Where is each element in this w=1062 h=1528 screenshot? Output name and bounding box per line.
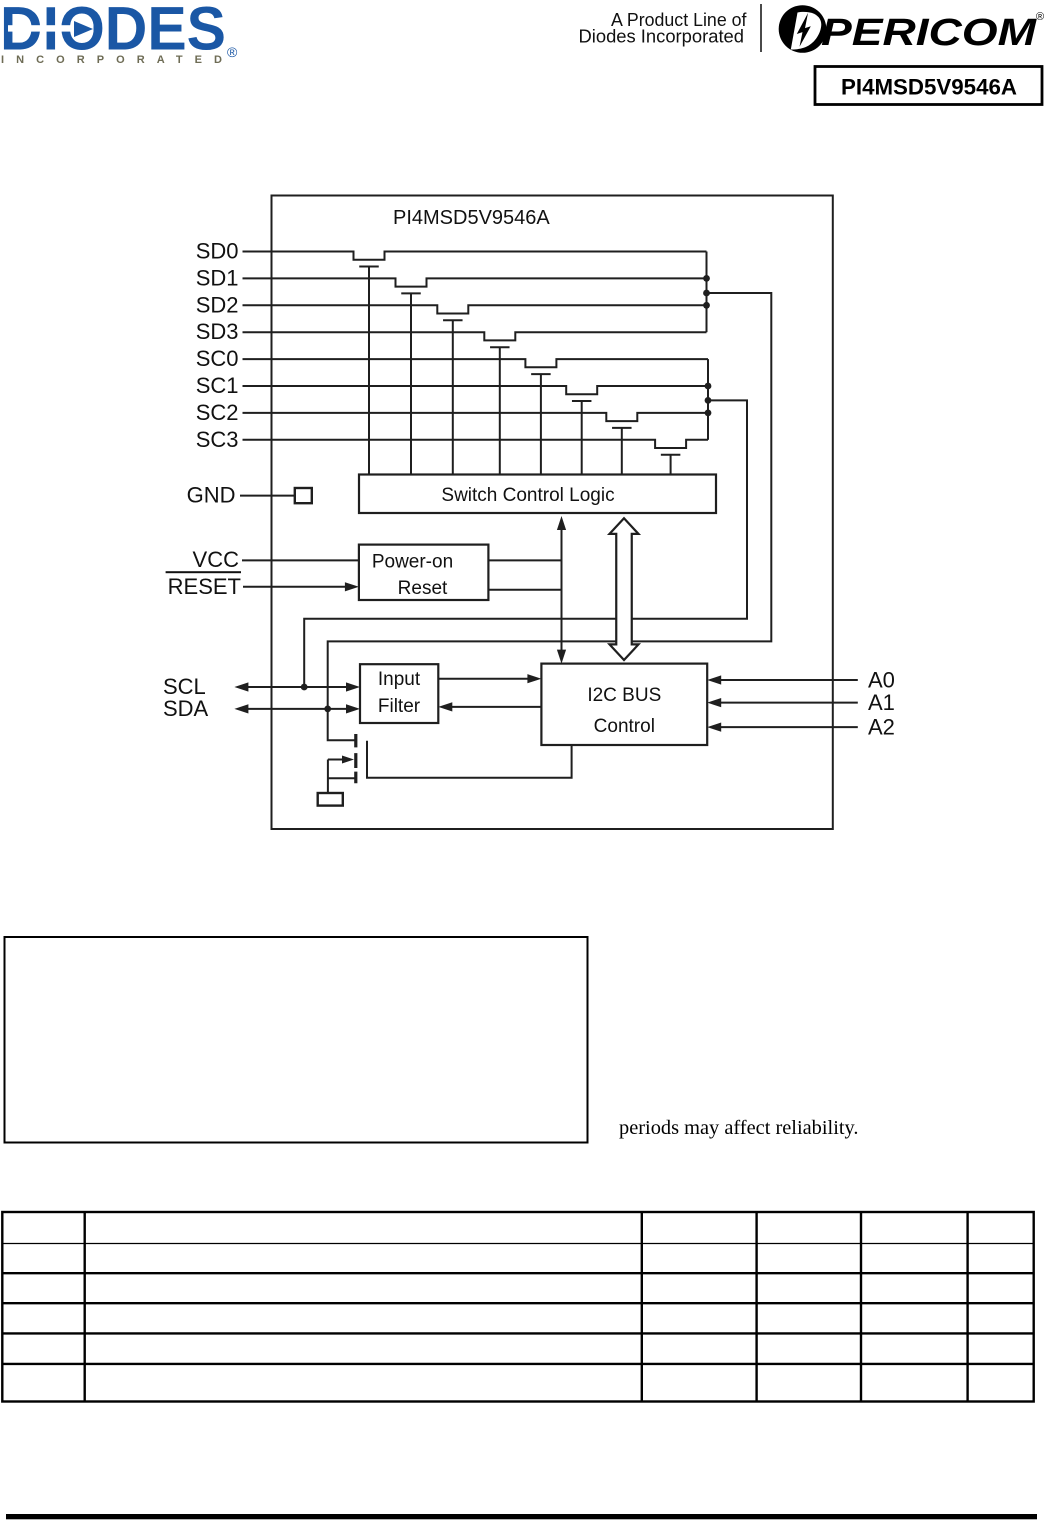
pulldown transistor Q1 body arrow: [328, 756, 354, 764]
block diagram outer box: [272, 196, 833, 830]
Pericom logo: [779, 5, 1044, 54]
wire SD2 with pass-transistor switch channel: [243, 305, 707, 313]
node SD1 junction: [703, 275, 710, 282]
svg-text:Diodes Incorporated: Diodes Incorporated: [579, 27, 745, 47]
node SC tap junction: [705, 397, 712, 404]
svg-text:SD1: SD1: [196, 265, 239, 290]
part number box: [815, 67, 1042, 105]
wire GND: [240, 495, 295, 497]
svg-text:SC3: SC3: [196, 427, 239, 452]
transistor gate SC1: [572, 401, 592, 475]
wire SC0 with pass-transistor switch channel: [243, 359, 709, 367]
svg-text:VCC: VCC: [193, 547, 240, 572]
transistor gate SD2: [443, 320, 463, 474]
transistor gate SD0: [359, 267, 379, 475]
transistor gate SC2: [612, 428, 632, 475]
svg-text:SD3: SD3: [196, 319, 239, 344]
SC output bus wire: [707, 359, 709, 440]
svg-text:SD0: SD0: [196, 239, 239, 264]
wire A1: [707, 698, 858, 707]
wire VCC: [242, 559, 359, 561]
wire I2C BUS Control to pulldown gate: [367, 741, 572, 778]
svg-text:Filter: Filter: [378, 696, 421, 717]
pulldown transistor Q1 source wire: [328, 777, 355, 779]
svg-text:®: ®: [227, 44, 238, 60]
svg-text:SC0: SC0: [196, 346, 239, 371]
empty note box: [5, 937, 588, 1143]
transistor gate SD3: [490, 347, 510, 474]
Power-on Reset block: [359, 545, 489, 600]
svg-text:periods may affect reliability: periods may affect reliability.: [619, 1117, 859, 1139]
Input Filter block: [360, 664, 438, 723]
wire SC2 with pass-transistor switch channel: [243, 413, 709, 421]
hollow double arrow between Switch Control Logic and I2C BUS Control: [610, 518, 639, 660]
wire SD bus to SDA: [328, 293, 772, 709]
RESET pin label with overbar: [166, 571, 241, 599]
svg-text:I2C BUS: I2C BUS: [587, 685, 661, 706]
svg-text:RESET: RESET: [168, 574, 241, 599]
footer rule: [6, 1514, 1037, 1519]
svg-text:Reset: Reset: [398, 578, 448, 599]
wire A0: [707, 675, 858, 684]
pulldown transistor Q1 channel: [354, 734, 357, 783]
svg-text:Power-on: Power-on: [372, 552, 453, 573]
svg-text:Switch Control Logic: Switch Control Logic: [441, 485, 614, 506]
SD output bus wire: [706, 252, 708, 333]
node SD2 junction: [703, 302, 710, 309]
wire SD0 with pass-transistor switch channel: [243, 252, 707, 260]
header divider: [760, 4, 762, 52]
wire RESET: [243, 582, 359, 591]
pulldown transistor Q1 drain wire from SDA: [328, 709, 356, 740]
empty parameter table: [2, 1212, 1033, 1402]
transistor gate SC0: [531, 374, 551, 474]
wire SC bus to SCL: [304, 400, 747, 687]
svg-text:PI4MSD5V9546A: PI4MSD5V9546A: [841, 75, 1017, 100]
wire SD1 with pass-transistor switch channel: [243, 278, 707, 286]
node SDA junction: [324, 706, 331, 713]
svg-text:PI4MSD5V9546A: PI4MSD5V9546A: [393, 207, 550, 229]
Diodes Incorporated logo: [0, 0, 238, 66]
svg-text:PERICOM: PERICOM: [821, 12, 1038, 54]
wire POR to control logic / I2C control: [488, 516, 566, 664]
transistor gate SC3: [661, 455, 681, 475]
transistor gate SD1: [401, 293, 421, 474]
node SC1 junction: [705, 383, 712, 390]
svg-text:SC1: SC1: [196, 373, 239, 398]
node SCL junction: [301, 684, 308, 691]
svg-text:A1: A1: [868, 690, 895, 715]
svg-text:Input: Input: [378, 669, 421, 690]
Switch Control Logic block: [359, 475, 716, 514]
svg-text:SC2: SC2: [196, 400, 239, 425]
wire A2: [707, 723, 858, 732]
header tagline: [579, 10, 748, 47]
svg-text:A2: A2: [868, 715, 895, 740]
GND terminal square: [295, 488, 312, 503]
node SC2 junction: [705, 410, 712, 417]
I2C BUS Control block: [541, 664, 707, 745]
wire Input Filter to I2C BUS Control: [438, 674, 541, 683]
node SD tap junction: [703, 290, 710, 297]
wire SD3 with pass-transistor switch channel: [243, 332, 707, 340]
svg-text:®: ®: [1036, 11, 1044, 23]
wire SCL bidirectional: [234, 682, 360, 691]
svg-text:SDA: SDA: [163, 696, 209, 721]
svg-text:SD2: SD2: [196, 292, 239, 317]
wire I2C BUS Control to Input Filter: [438, 702, 541, 711]
svg-text:GND: GND: [187, 483, 236, 508]
svg-text:Control: Control: [594, 716, 655, 737]
svg-text:A0: A0: [868, 668, 895, 693]
wire SC3 with pass-transistor switch channel: [243, 440, 709, 448]
wire SDA bidirectional: [234, 704, 360, 713]
wire SC1 with pass-transistor switch channel: [243, 386, 709, 394]
wire body/source to substrate terminal: [327, 760, 329, 794]
substrate ground terminal: [318, 793, 343, 806]
